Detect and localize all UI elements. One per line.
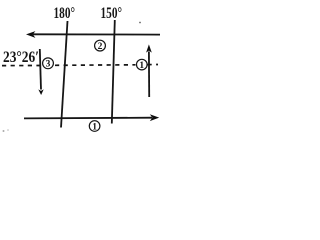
svg-text:1: 1 bbox=[139, 61, 144, 71]
svg-text:2: 2 bbox=[98, 42, 103, 52]
svg-text:23°26′: 23°26′ bbox=[3, 49, 39, 66]
svg-text:1: 1 bbox=[92, 122, 97, 132]
svg-text:180°: 180° bbox=[54, 5, 76, 22]
svg-text:150°: 150° bbox=[101, 5, 123, 22]
svg-text:3: 3 bbox=[46, 60, 51, 70]
